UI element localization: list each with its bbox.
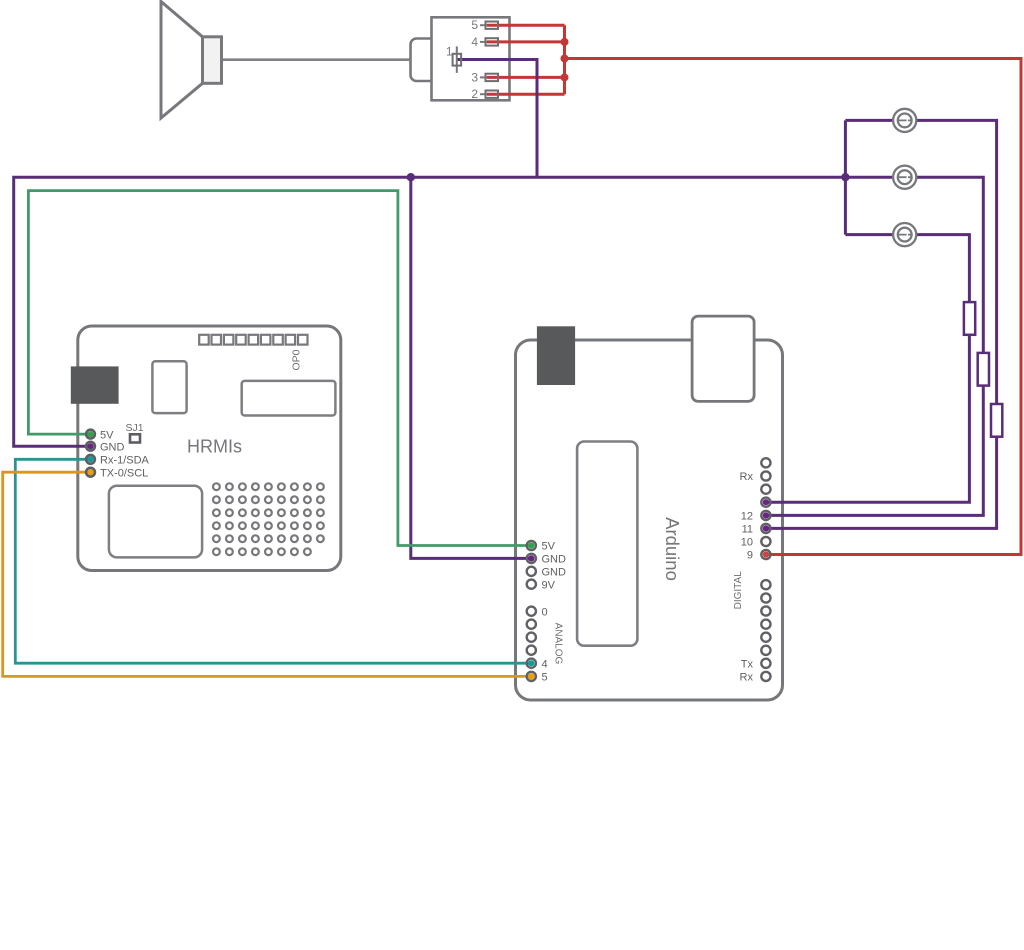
wire teal SDA xyxy=(15,459,531,663)
speaker SP1 xyxy=(161,2,222,119)
wire red jack pin3 xyxy=(487,76,565,79)
Arduino pin D4 xyxy=(761,633,770,642)
svg-text:OP0: OP0 xyxy=(290,349,302,370)
jack pin 3 xyxy=(471,70,498,84)
svg-text:0: 0 xyxy=(542,606,548,618)
Arduino central chip xyxy=(577,442,637,646)
svg-text:9: 9 xyxy=(747,550,753,562)
svg-text:3: 3 xyxy=(471,70,478,84)
wire red to Arduino pin 9 xyxy=(565,59,1022,555)
Arduino pin D13 xyxy=(761,498,770,507)
Arduino pin 9V xyxy=(527,580,536,589)
wire red bus vertical xyxy=(563,25,566,94)
svg-text:4: 4 xyxy=(471,35,478,49)
Arduino pin D13b xyxy=(761,485,770,494)
Arduino pin D11 xyxy=(761,524,770,533)
Arduino pin 5V xyxy=(527,541,536,550)
wire purple branch 1 xyxy=(766,120,997,528)
Arduino pin A2 xyxy=(527,633,536,642)
svg-text:10: 10 xyxy=(741,537,753,549)
junction purple mid xyxy=(407,173,415,181)
Arduino pin GND2 xyxy=(527,567,536,576)
HRMIs connector dark xyxy=(71,366,119,403)
svg-text:GND: GND xyxy=(542,567,567,579)
piezo S1 xyxy=(893,109,916,132)
wire red jack pin5 xyxy=(487,24,565,27)
svg-text:GND: GND xyxy=(100,441,125,453)
jack pin 4 xyxy=(471,35,498,49)
Arduino pin D9 xyxy=(761,550,770,559)
Arduino pin D7 xyxy=(761,593,770,602)
svg-text:Tx: Tx xyxy=(741,659,754,671)
piezo S3 xyxy=(893,223,916,246)
wire purple branch 2 xyxy=(766,177,983,515)
resistor R2 xyxy=(978,353,989,386)
svg-text:ANALOG: ANALOG xyxy=(553,623,564,665)
junction red at pin4 xyxy=(561,38,569,46)
jack pin 1 xyxy=(446,45,461,73)
piezo S2 xyxy=(893,166,916,189)
Arduino pin D2Tx xyxy=(761,659,770,668)
HRMIs wide rect xyxy=(242,381,336,416)
Arduino pin D12 xyxy=(761,511,770,520)
wire red jack pin4 xyxy=(487,40,565,43)
Arduino pin Rx13 xyxy=(761,471,770,480)
Arduino pin A1 xyxy=(527,620,536,629)
wire purple from jack pin1 xyxy=(457,60,537,178)
svg-text:2: 2 xyxy=(471,87,478,101)
Arduino left pin labels xyxy=(542,541,567,684)
HRMIs pin GND xyxy=(86,441,124,453)
svg-text:12: 12 xyxy=(741,511,753,523)
Arduino pin D3 xyxy=(761,646,770,655)
resistor R1 xyxy=(964,302,975,335)
junction red at pin3 xyxy=(561,73,569,81)
svg-text:Rx: Rx xyxy=(740,672,754,684)
jack pin 2 xyxy=(471,87,498,101)
wire orange SCL xyxy=(3,472,532,676)
HRMIs bottom-left rect xyxy=(109,486,202,558)
wire purple drop to Arduino GND xyxy=(411,177,532,558)
Arduino pin D1Rx xyxy=(761,672,770,681)
jack pin 5 xyxy=(471,18,498,32)
Arduino pin A5 xyxy=(527,672,536,681)
wire purple switch bus vertical xyxy=(844,120,847,234)
HRMIs board U1 xyxy=(78,326,341,571)
svg-text:5V: 5V xyxy=(542,541,556,553)
svg-text:Rx-1/SDA: Rx-1/SDA xyxy=(100,455,150,467)
HRMIs crystal rect xyxy=(152,361,186,413)
Arduino pin A4 xyxy=(527,659,536,668)
resistor R3 xyxy=(991,404,1002,437)
junction purple right xyxy=(841,173,849,181)
wire speaker to jack xyxy=(221,58,411,61)
svg-text:5: 5 xyxy=(471,18,478,32)
junction red mid xyxy=(561,55,569,63)
Arduino right pin labels xyxy=(740,471,754,683)
svg-text:TX-0/SCL: TX-0/SCL xyxy=(100,467,148,479)
Arduino pin D6 xyxy=(761,606,770,615)
wire purple branch 3 xyxy=(766,235,970,503)
Arduino power jack outline xyxy=(692,316,754,401)
svg-text:Arduino: Arduino xyxy=(662,517,683,581)
Arduino USB dark xyxy=(537,326,575,385)
wire purple GND main xyxy=(14,177,846,446)
Arduino pin A0 xyxy=(527,607,536,616)
svg-text:HRMIs: HRMIs xyxy=(187,436,242,456)
svg-text:DIGITAL: DIGITAL xyxy=(733,571,744,610)
HRMIs top header squares xyxy=(199,335,307,345)
Arduino pin D8 xyxy=(761,580,770,589)
Arduino pin AREF xyxy=(761,458,770,467)
HRMIs pin TX-0/SCL xyxy=(86,467,148,479)
svg-text:11: 11 xyxy=(742,524,753,536)
svg-text:9V: 9V xyxy=(542,579,556,591)
svg-text:SJ1: SJ1 xyxy=(125,422,143,434)
Arduino pin D10 xyxy=(761,537,770,546)
jack J1 tab xyxy=(411,39,437,82)
SJ1 pad square xyxy=(130,434,140,442)
wire red jack pin2 xyxy=(487,93,565,96)
jack J1 body xyxy=(432,17,510,100)
wire green 5V xyxy=(28,191,531,546)
svg-text:5V: 5V xyxy=(100,429,114,441)
Arduino board U2 xyxy=(516,340,783,700)
HRMIs grille holes xyxy=(213,483,324,555)
svg-text:4: 4 xyxy=(542,658,548,670)
svg-text:5: 5 xyxy=(542,672,548,684)
svg-text:GND: GND xyxy=(542,554,567,566)
Arduino pin A3 xyxy=(527,646,536,655)
HRMIs pin 5V xyxy=(86,429,114,441)
Arduino pin GND xyxy=(527,554,536,563)
svg-text:Rx: Rx xyxy=(740,471,754,483)
Arduino pin D5 xyxy=(761,620,770,629)
HRMIs pin Rx-1/SDA xyxy=(86,455,149,467)
